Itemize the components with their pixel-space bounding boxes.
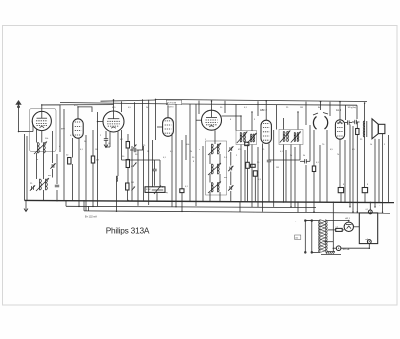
power transformer T4 primary (318, 221, 319, 224)
wire (364, 137, 366, 188)
shield box (236, 131, 257, 145)
svg-text:50k: 50k (186, 144, 189, 146)
small box (245, 142, 249, 145)
wire (26, 136, 28, 200)
wire (294, 147, 296, 208)
antenna coupling capacitor C1 (18, 106, 20, 108)
svg-text:0,5: 0,5 (330, 149, 334, 151)
svg-text:3: 3 (254, 119, 256, 121)
wire (276, 105, 278, 130)
wire (364, 193, 366, 203)
svg-text:0,3: 0,3 (258, 179, 262, 181)
wire (185, 135, 187, 160)
wire (247, 168, 249, 202)
svg-text:8: 8 (193, 161, 195, 163)
transformer arcs (313, 117, 316, 130)
svg-text:1k: 1k (370, 144, 372, 146)
wire (127, 134, 129, 142)
wire (354, 226, 360, 228)
capacitor C16 (block) (338, 188, 343, 193)
svg-text:1M: 1M (95, 149, 98, 151)
shield box (279, 130, 303, 145)
svg-text:osc: osc (224, 177, 227, 179)
wire (257, 101, 259, 116)
svg-text:Philips 313A: Philips 313A (106, 225, 150, 235)
wire (356, 105, 358, 119)
wire (31, 121, 34, 132)
wire (374, 139, 376, 207)
svg-text:470: 470 (112, 107, 116, 109)
wire (257, 147, 259, 207)
small box (246, 162, 250, 168)
mains terminal (311, 220, 313, 254)
label 220V (295, 235, 301, 239)
trimmer capacitor C8 (229, 147, 231, 151)
svg-text:50: 50 (66, 155, 69, 157)
wire (72, 164, 74, 201)
wire (244, 150, 246, 202)
wire (364, 103, 366, 121)
resistor R3 (126, 160, 129, 168)
wire (230, 191, 232, 202)
svg-text:0,5: 0,5 (131, 166, 135, 168)
wire (154, 160, 156, 169)
wire (345, 105, 347, 120)
wire (222, 116, 242, 119)
wire (84, 211, 230, 212)
svg-text:AZ 1: AZ 1 (345, 217, 350, 220)
wire (85, 135, 87, 211)
wire (321, 253, 341, 255)
svg-text:0,1: 0,1 (163, 157, 167, 159)
wire (181, 193, 183, 212)
wire (78, 138, 80, 206)
wire (211, 101, 213, 110)
fuse F2 (367, 240, 371, 244)
heater lamp wire (332, 202, 334, 248)
wire (297, 112, 299, 130)
wire (329, 102, 331, 116)
wire (196, 119, 202, 121)
wire (121, 130, 123, 160)
capacitor C12 (304, 159, 306, 163)
svg-text:50: 50 (192, 157, 195, 159)
wire (175, 104, 177, 207)
antenna (15, 100, 21, 105)
wire (235, 105, 237, 131)
wire (92, 130, 94, 156)
wire (273, 130, 275, 207)
coil L6/L7 (211, 144, 213, 154)
wire (202, 146, 204, 202)
svg-text:25: 25 (286, 107, 289, 109)
svg-text:EF9: EF9 (61, 128, 66, 130)
wire (152, 140, 154, 187)
svg-text:25: 25 (360, 139, 363, 141)
wire (105, 146, 110, 148)
tube V2 (73, 119, 83, 138)
wire (328, 229, 336, 231)
IF transformer T1 (239, 133, 241, 143)
wire (148, 100, 150, 205)
wire (251, 112, 253, 131)
wire (230, 172, 232, 186)
wire (167, 105, 169, 118)
wire (326, 221, 349, 223)
wire (268, 143, 270, 160)
wire (189, 104, 191, 201)
wire (214, 130, 216, 144)
wire (157, 126, 163, 128)
svg-text:5: 5 (152, 162, 154, 164)
output transformer T3 (366, 121, 368, 137)
wire (36, 153, 38, 179)
svg-text:0,2: 0,2 (120, 139, 124, 141)
svg-text:7k: 7k (337, 154, 339, 156)
wire (127, 190, 129, 201)
svg-text:3-1: 3-1 (224, 157, 228, 159)
wire (341, 244, 369, 249)
wire (83, 201, 85, 211)
svg-text:50: 50 (122, 156, 125, 158)
capacitor C13 (347, 120, 349, 124)
wire (131, 146, 133, 201)
wire (340, 193, 342, 202)
wire (219, 192, 221, 202)
wire (113, 100, 115, 111)
wire (219, 174, 221, 183)
wire (109, 132, 111, 147)
svg-text:0,5: 0,5 (128, 107, 132, 109)
resistor R2 (91, 156, 94, 163)
trimmer capacitor C3 (31, 186, 33, 190)
wire (240, 119, 242, 131)
wire (285, 150, 287, 202)
wire (52, 131, 54, 163)
wire (313, 172, 315, 212)
svg-text:ECH 3: ECH 3 (168, 106, 175, 108)
svg-text:2: 2 (236, 155, 238, 157)
label box ECH (166, 100, 181, 105)
svg-text:5: 5 (384, 144, 386, 146)
wire (117, 132, 119, 177)
svg-text:~: ~ (295, 221, 297, 223)
wire (312, 251, 320, 253)
wire (63, 109, 65, 201)
wire (305, 220, 320, 222)
wire (262, 144, 264, 212)
wire (240, 145, 242, 202)
wire (41, 131, 43, 143)
wire (142, 99, 144, 150)
resistor R4 (126, 183, 129, 190)
svg-text:50: 50 (220, 107, 223, 109)
svg-text:2: 2 (100, 135, 102, 137)
svg-text:8: 8 (367, 184, 369, 186)
tube V1 (32, 111, 51, 130)
svg-text:50k: 50k (45, 138, 48, 140)
wire (171, 135, 173, 207)
svg-text:1M: 1M (276, 167, 279, 169)
wire (305, 102, 307, 125)
svg-text:0,1: 0,1 (185, 186, 189, 188)
wire (309, 125, 311, 161)
wire (121, 101, 123, 112)
svg-text:1k: 1k (147, 151, 149, 153)
capacitor C15 (block) (362, 188, 367, 193)
potentiometer R5 (145, 187, 165, 193)
wire (116, 182, 118, 212)
wire (92, 163, 94, 206)
svg-text:5k: 5k (290, 155, 292, 157)
trimmer capacitor C9 (229, 167, 231, 171)
resistor R11 (336, 228, 343, 231)
junction box (359, 213, 377, 244)
svg-text:0,1: 0,1 (80, 149, 84, 151)
svg-text:2M: 2M (131, 182, 134, 184)
wire (356, 135, 358, 212)
wire (230, 152, 232, 166)
wire (356, 122, 358, 129)
wire (251, 145, 253, 208)
shield box (30, 109, 57, 152)
chassis ground (327, 251, 335, 253)
wire (305, 220, 312, 222)
loudspeaker LS1 (372, 119, 378, 139)
tube V3 (103, 111, 124, 132)
svg-text:osc: osc (48, 175, 51, 177)
coil L3/L4 (39, 179, 41, 190)
wire (130, 149, 134, 151)
shield box (206, 141, 227, 195)
wire (72, 138, 74, 158)
wire (181, 140, 183, 189)
wire (25, 200, 395, 202)
wire (230, 212, 390, 213)
wire (333, 247, 336, 249)
tube V7 (335, 120, 344, 139)
svg-text:5k: 5k (303, 155, 305, 157)
svg-text:300 mA: 300 mA (343, 248, 351, 251)
wire (168, 104, 357, 105)
svg-text:1M: 1M (300, 107, 303, 109)
wire (127, 168, 129, 184)
svg-text:0,1: 0,1 (170, 151, 174, 153)
svg-text:c: c (199, 149, 200, 151)
wire (195, 104, 197, 206)
tube V4 (163, 118, 174, 137)
svg-text:2k: 2k (146, 107, 148, 109)
resistor R12 (126, 142, 129, 149)
wire (265, 101, 267, 121)
svg-text:0,1: 0,1 (244, 107, 248, 109)
wire (297, 202, 299, 212)
wire (43, 153, 45, 179)
wire (349, 125, 351, 207)
wire (43, 190, 45, 200)
tube V5 (202, 110, 222, 130)
wire (209, 192, 211, 202)
fuse F1 (368, 210, 372, 214)
svg-text:0,5M: 0,5M (146, 189, 151, 191)
ground (25, 200, 27, 211)
wire (19, 131, 34, 133)
svg-text:470: 470 (238, 149, 242, 151)
wire (56, 154, 58, 184)
wire (339, 102, 341, 120)
svg-text:a: a (37, 159, 39, 161)
wire (159, 160, 161, 188)
power transformer T4 core (319, 219, 321, 252)
tube V6 (261, 120, 271, 143)
wire (42, 105, 60, 112)
resistor R8 (253, 171, 257, 176)
trimmer capacitor C10 (229, 186, 231, 190)
svg-text:log: log (165, 192, 168, 194)
wire (156, 193, 158, 201)
svg-text:1,2: 1,2 (336, 227, 339, 229)
pilot lamp LP1 (336, 246, 341, 251)
coil L10/L11 (211, 183, 213, 193)
coil L1/L2 (37, 143, 39, 154)
wire (127, 148, 129, 160)
wire (59, 105, 61, 152)
svg-text:0,1: 0,1 (316, 162, 320, 164)
capacitor C7 (152, 168, 156, 170)
coil L5 (116, 176, 118, 182)
capacitor C5 (104, 138, 108, 140)
svg-text:EL 3: EL 3 (336, 109, 341, 112)
svg-text:1: 1 (205, 139, 207, 141)
resistor R6 (180, 189, 184, 193)
wire (143, 146, 145, 201)
wire (254, 176, 256, 202)
wire (382, 134, 384, 213)
wire (24, 134, 26, 200)
wire (283, 145, 285, 203)
wire (101, 100, 156, 101)
wire (209, 174, 211, 183)
wire (198, 101, 200, 114)
IF transformer T2 (282, 132, 284, 142)
wire (247, 145, 249, 163)
wire (66, 206, 316, 207)
svg-text:25: 25 (30, 183, 33, 185)
rectifier tube V8 (344, 222, 353, 231)
wire (320, 102, 322, 110)
wire (342, 229, 344, 231)
wire (305, 165, 307, 212)
wire (268, 162, 270, 202)
wire (88, 206, 90, 211)
wire (388, 135, 390, 203)
junction dots (41, 104, 43, 106)
wire (65, 201, 67, 207)
wire (339, 139, 341, 187)
svg-text:25: 25 (262, 149, 265, 151)
wire (209, 154, 211, 164)
svg-text:220: 220 (295, 237, 298, 239)
capacitor C11 (267, 159, 271, 161)
wire (105, 131, 107, 139)
chassis (332, 248, 334, 251)
resistor R1 (68, 158, 71, 165)
wire (299, 145, 301, 161)
wire (134, 102, 136, 146)
svg-text:4: 4 (59, 146, 61, 148)
wire (283, 118, 285, 130)
svg-text:0,1: 0,1 (366, 209, 369, 211)
wire (98, 121, 104, 123)
svg-text:6: 6 (230, 119, 232, 121)
svg-text:8k: 8k (318, 107, 320, 109)
wire (319, 145, 321, 202)
svg-text:25: 25 (143, 145, 146, 147)
svg-text:ECH 2/3B: ECH 2/3B (167, 103, 177, 105)
ground (105, 140, 107, 147)
wire (219, 154, 221, 164)
wire (60, 103, 168, 104)
wire (378, 139, 380, 202)
wire (155, 99, 157, 140)
wire (344, 140, 346, 202)
wire (56, 190, 58, 200)
svg-text:50: 50 (84, 141, 87, 143)
resistor R7 (251, 164, 256, 167)
diode arrow (132, 187, 136, 191)
power transformer T4 secondary (326, 221, 327, 224)
diode arrow (133, 145, 137, 149)
wire (239, 202, 241, 212)
wire (137, 150, 139, 206)
wire (224, 101, 226, 113)
svg-text:10: 10 (108, 143, 111, 145)
wire (42, 104, 114, 106)
svg-text:70: 70 (322, 144, 325, 146)
resistor R10 (356, 129, 359, 135)
coil L8/L9 (211, 164, 213, 174)
svg-text:B+ 132 mA: B+ 132 mA (85, 216, 97, 219)
wire (269, 159, 300, 161)
wire (78, 107, 92, 119)
wire (156, 99, 368, 101)
capacitor C14 (354, 120, 356, 124)
wire (352, 126, 354, 212)
diode arrow (133, 163, 137, 167)
wire (326, 241, 334, 243)
svg-text:~: ~ (379, 205, 381, 207)
wire (326, 130, 328, 202)
capacitor C6 (133, 148, 135, 152)
svg-text:0,5: 0,5 (352, 149, 356, 151)
capacitor C4 (55, 184, 59, 186)
resistor R9 (312, 166, 315, 172)
svg-text:185 g(0m): 185 g(0m) (348, 107, 357, 109)
svg-text:2k: 2k (190, 151, 192, 153)
wire (36, 129, 38, 143)
wire (122, 159, 161, 161)
svg-text:50: 50 (257, 162, 260, 164)
wire (313, 130, 315, 166)
wire (97, 112, 99, 206)
wire (369, 202, 371, 210)
wire (52, 169, 54, 178)
wire (290, 145, 292, 207)
trimmer capacitor C2 (51, 164, 53, 168)
mains terminal (304, 220, 306, 254)
